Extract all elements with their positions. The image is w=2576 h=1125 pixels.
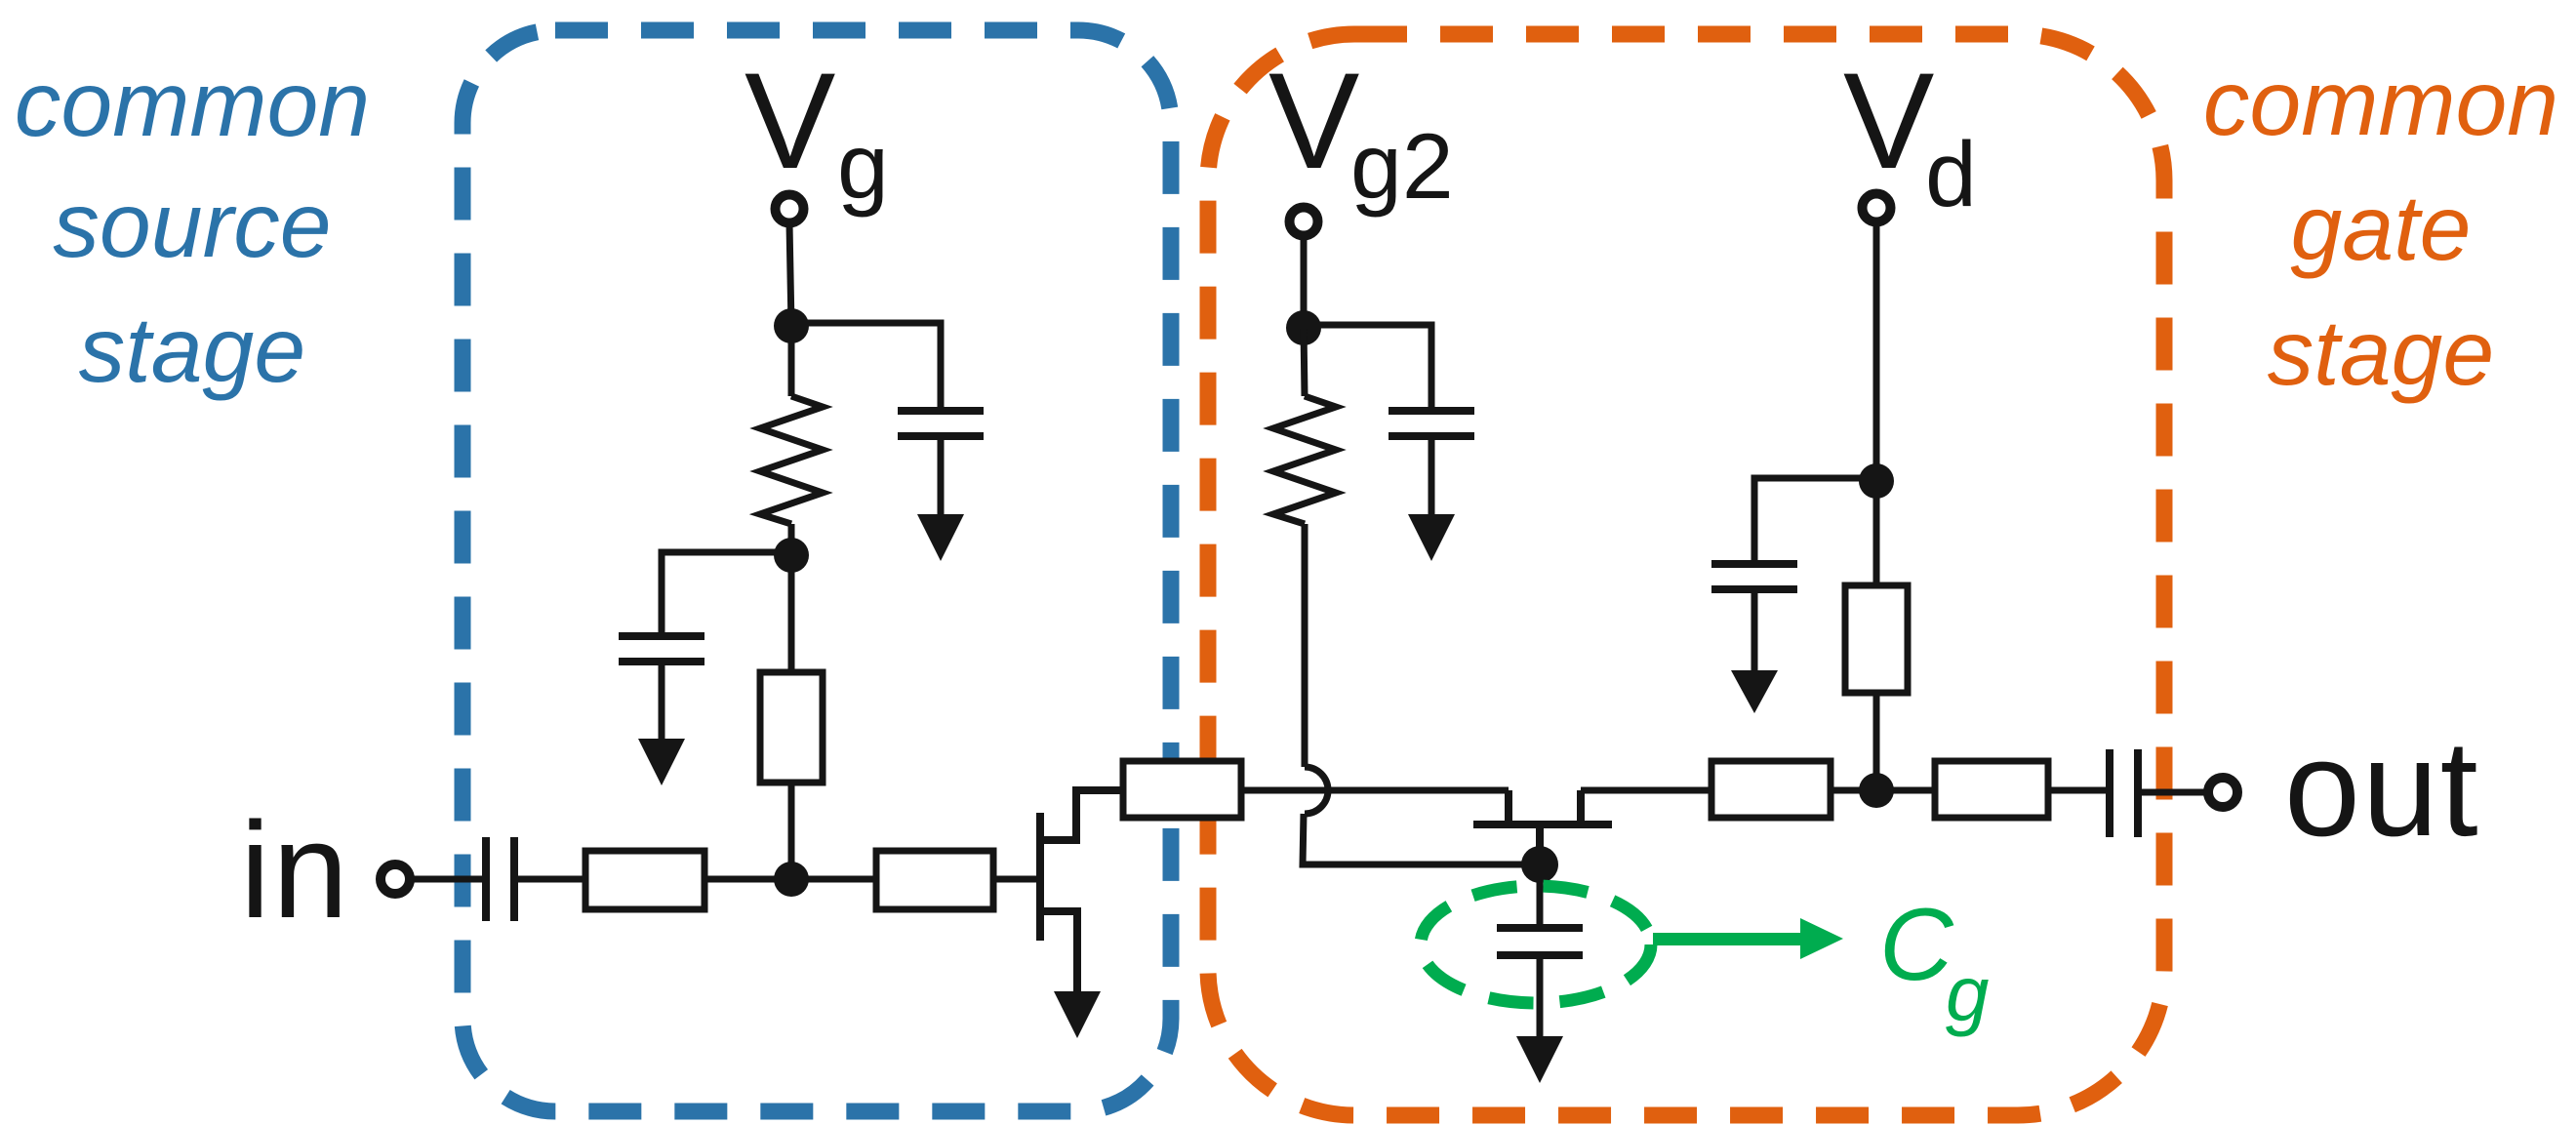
wire C6 to ground xyxy=(1751,589,1758,672)
stage boundary box: common gate stage (orange dashed) xyxy=(1208,34,2164,1115)
capacitor C6 (Vd bypass) xyxy=(1711,564,1797,589)
ground (arrow) below C5 xyxy=(1408,514,1455,561)
wire node B2 to resistor R4 xyxy=(788,555,795,672)
wire Vg2 terminal to node C1 xyxy=(1301,236,1308,328)
wire Vg terminal to node B1 xyxy=(789,223,791,326)
node B1 (junction dot) xyxy=(774,308,809,343)
wire Cg to ground xyxy=(1537,955,1544,1038)
wire R6 to node OUT1 xyxy=(1873,693,1880,790)
terminal Vg xyxy=(776,195,804,223)
svg-text:stage: stage xyxy=(2268,301,2494,405)
green callout arrow to Cg label xyxy=(1653,918,1843,959)
wire node D1 to resistor R6 xyxy=(1873,481,1880,585)
svg-text:common: common xyxy=(2203,52,2558,155)
resistor R2 (series to T1 gate) xyxy=(876,851,993,909)
wire node C1 to cap C5 xyxy=(1304,325,1431,411)
transistor T2 (common gate FET) xyxy=(1473,790,1612,864)
wire R5 to node OUT1 xyxy=(1831,787,1935,794)
node B2 (junction dot) xyxy=(774,538,809,573)
resistor R1 (series input) xyxy=(585,851,704,909)
svg-text:stage: stage xyxy=(79,299,305,402)
highlight ellipse around Cg (green dashed) xyxy=(1421,886,1651,1003)
svg-text:V: V xyxy=(1268,44,1359,197)
wire node B1 to resistor Rg1 xyxy=(788,326,795,396)
ground (arrow) at T1 source xyxy=(1054,991,1101,1038)
wire in to C1 xyxy=(413,876,485,883)
node A (junction dot) xyxy=(774,862,809,897)
label Cg (green) xyxy=(1879,888,1990,1037)
stage boundary box: common source stage (blue dashed) xyxy=(463,30,1171,1111)
resistor R7 (series output) xyxy=(1935,761,2048,818)
ground (arrow) below C3 xyxy=(638,739,685,785)
label Vd xyxy=(1843,44,1977,226)
wire hop (vertical wire jumps signal wire) xyxy=(1305,767,1328,814)
wire hop to T2 gate node xyxy=(1303,814,1540,864)
wire node B2 to cap C3 xyxy=(662,552,791,636)
svg-text:g: g xyxy=(1946,950,1990,1037)
wire C3 to ground xyxy=(659,662,665,741)
wire Rg1 to node B2 xyxy=(788,524,795,555)
label Vg xyxy=(745,44,889,219)
wire C5 to ground xyxy=(1429,436,1435,516)
node C1 (junction dot) xyxy=(1286,310,1321,345)
resistor R4 (vertical box) xyxy=(760,672,823,783)
wire node B1 to bypass cap C2 xyxy=(791,323,941,411)
svg-text:in: in xyxy=(240,793,350,946)
wire node G2 down to capacitor Cg xyxy=(1537,864,1544,928)
capacitor C5 (Vg2 bypass) xyxy=(1389,411,1474,436)
port in (terminal circle) xyxy=(381,864,410,894)
svg-text:source: source xyxy=(53,174,331,277)
wire R2 to T1 gate xyxy=(993,876,1040,883)
ground (arrow) below C2 xyxy=(917,514,964,561)
svg-text:out: out xyxy=(2284,711,2480,864)
node D1 (junction dot) xyxy=(1859,463,1894,499)
wire Vd terminal to node D1 xyxy=(1873,222,1880,481)
wire T2 drain to R5 xyxy=(1581,787,1711,794)
label: common source stage xyxy=(15,53,370,402)
capacitor C3 (gate node bypass) xyxy=(619,636,704,662)
capacitor C7 (output coupling) xyxy=(2110,749,2138,837)
wire R7 to C7 xyxy=(2048,787,2107,794)
label: common gate stage xyxy=(2203,52,2558,405)
wire node C1 to resistor Rg2 xyxy=(1304,328,1305,396)
transistor T1 (common source FET) xyxy=(1040,790,1123,993)
node OUT1 (junction dot) xyxy=(1859,773,1894,808)
svg-text:V: V xyxy=(1843,44,1934,197)
svg-text:g2: g2 xyxy=(1350,115,1454,219)
ground (arrow) below C6 xyxy=(1731,670,1778,713)
resistor R3 (T1 drain series) xyxy=(1123,761,1241,818)
wire C2 to ground xyxy=(938,436,945,516)
terminal Vg2 xyxy=(1290,208,1318,236)
wire Rg2 down to hop over signal line xyxy=(1302,524,1308,767)
resistor R5 (T2 drain series) xyxy=(1711,761,1831,818)
label Vg2 xyxy=(1268,44,1454,219)
resistor Rg2 (zigzag, Vg2 bias) xyxy=(1273,396,1336,524)
capacitor C1 (input coupling) xyxy=(486,837,514,921)
wire C1 to R1 xyxy=(518,876,585,883)
ground (arrow) below Cg xyxy=(1516,1036,1563,1083)
wire node D1 to cap C6 xyxy=(1754,478,1876,564)
svg-text:gate: gate xyxy=(2291,177,2472,280)
resistor R6 (vertical drain load) xyxy=(1845,585,1908,693)
wire R1 to node A and on to R2 xyxy=(704,876,876,883)
svg-text:d: d xyxy=(1925,123,1977,226)
port out (terminal circle) xyxy=(2208,778,2237,807)
node G2 (T2 gate junction dot) xyxy=(1521,846,1558,883)
capacitor C2 (Vg bypass) xyxy=(898,411,984,436)
wire R3 to T2 source (passes under hop) xyxy=(1241,787,1509,794)
terminal Vd xyxy=(1863,194,1891,222)
wire R4 to node A xyxy=(788,783,795,879)
svg-text:C: C xyxy=(1879,888,1954,1002)
svg-text:common: common xyxy=(15,53,370,156)
svg-text:g: g xyxy=(837,115,889,219)
capacitor Cg (gate grounding cap) xyxy=(1497,928,1583,955)
wire C7 to out port xyxy=(2142,789,2206,796)
svg-text:V: V xyxy=(745,44,835,197)
resistor Rg1 (zigzag, Vg bias) xyxy=(760,396,823,524)
